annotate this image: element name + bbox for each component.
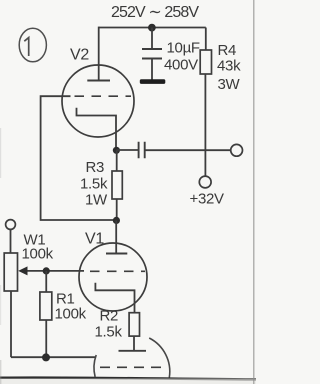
resistor R4 body [200,50,211,74]
potentiometer W1 bottom lead [10,291,12,357]
capacitor C1 plates 10uF 400V [142,49,162,59]
tube V3 envelope left arc [94,355,96,377]
svg-text:R4: R4 [218,42,237,59]
svg-text:V1: V1 [85,231,104,248]
wire capacitor C2 to output terminal [145,149,231,151]
resistor R3 body [112,171,122,199]
svg-text:1.5k: 1.5k [95,324,123,341]
tube V3 envelope right arc [149,338,170,378]
junction dot wiper node [43,267,50,274]
svg-text:100k: 100k [22,246,54,263]
tube V1 envelope [79,243,147,311]
tube V2 envelope [62,65,134,137]
wire V2 plate lead [98,27,100,81]
wire V2 grid to node B [41,96,117,220]
capacitor C2 coupling plates [139,142,145,159]
svg-text:43k: 43k [217,58,241,75]
figure marker digit 1 [24,38,28,56]
svg-text:+32V: +32V [190,191,225,208]
tube V1 cathode hook [95,283,134,313]
wire top supply bus [99,27,206,29]
potentiometer W1 terminal circle [6,220,16,230]
potentiometer W1 wiper arrow line [25,270,84,272]
svg-text:10µF: 10µF [167,40,200,57]
wire node B to V1 plate [115,220,117,253]
junction dot cathode node [113,147,120,154]
tube V1 grid dashed line [90,270,145,272]
tube V3 plate bar [119,350,147,352]
tube V2 plate bar [87,80,110,82]
resistor R2 body [129,313,139,336]
wire cathode node to capacitor C2 [116,149,138,151]
svg-text:R2: R2 [100,308,119,325]
resistor R3 lead top [116,150,118,171]
svg-text:252V ∼ 258V: 252V ∼ 258V [111,4,199,21]
resistor R2 lead bottom [133,336,135,351]
terminal +32V circle [199,176,211,188]
wire ground rail [11,356,96,358]
svg-text:3W: 3W [218,76,241,93]
tube V1 plate bar [106,253,127,255]
svg-text:V2: V2 [70,47,89,64]
potentiometer W1 top lead [10,230,12,254]
scan border line right [253,0,255,384]
output terminal circle [231,144,243,156]
resistor R1 lead top [45,271,47,292]
svg-text:1W: 1W [85,192,108,209]
resistor R1 body [40,292,52,320]
resistor R4 lead top [205,28,207,51]
junction dot node B [113,217,120,224]
resistor R4 lead bottom [204,74,206,176]
svg-text:100k: 100k [55,306,87,323]
svg-text:1.5k: 1.5k [80,176,108,193]
potentiometer W1 wiper arrowhead [18,266,27,275]
scan smudge left edge [0,128,1,178]
junction dot ground rail [42,353,50,361]
capacitor C1 lead top [151,28,153,49]
tube V3 grid dashed line [100,366,162,368]
ground chassis bar [140,79,166,84]
potentiometer W1 body [4,253,17,291]
svg-text:R3: R3 [86,159,105,176]
scan shading below crop edge [0,379,256,384]
resistor R3 lead bottom [116,199,118,221]
tube V2 grid dashed line [75,95,132,97]
svg-text:400V: 400V [164,57,198,74]
figure marker circle 1 [19,28,46,62]
capacitor C1 lead bottom [151,59,153,80]
resistor R1 lead bottom [45,320,47,358]
junction dot supply node [148,24,156,32]
tube V2 cathode hook [77,108,117,149]
photo crop edge bottom [0,378,256,380]
